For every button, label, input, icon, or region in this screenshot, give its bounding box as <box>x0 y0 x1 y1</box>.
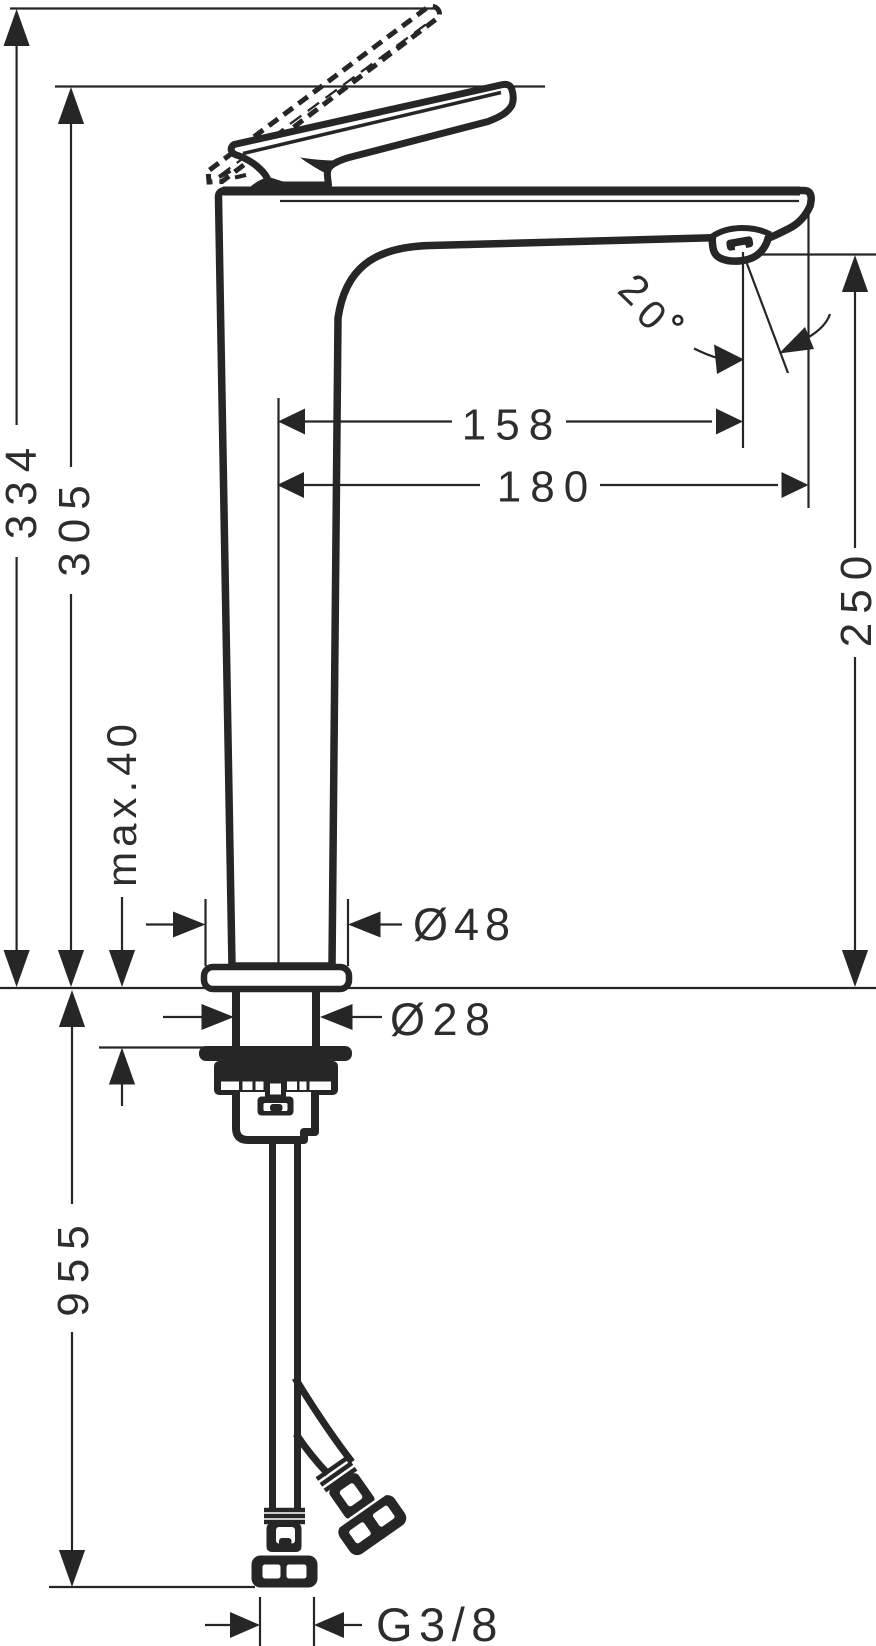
body top inner line <box>280 200 799 202</box>
retaining clip <box>258 1081 294 1116</box>
hose connector left <box>252 1510 318 1588</box>
svg-text:955: 955 <box>49 1216 98 1316</box>
lower shank body <box>236 1092 315 1140</box>
dimension 250 <box>832 255 876 987</box>
svg-text:180: 180 <box>497 463 597 512</box>
angle arc arrow right <box>779 314 830 354</box>
svg-text:250: 250 <box>832 547 876 647</box>
supply hose left <box>273 1144 298 1508</box>
shank tube <box>236 990 316 1048</box>
svg-text:305: 305 <box>50 476 99 576</box>
dimension 180 <box>277 463 809 512</box>
svg-text:Ø28: Ø28 <box>390 994 498 1045</box>
extension line spout tip vertical <box>807 212 809 508</box>
angle 20 degree label <box>610 264 682 339</box>
dimension G3/8 <box>205 1597 504 1646</box>
base plate <box>204 967 349 989</box>
lever handle <box>231 84 513 188</box>
supply hose right diagonal <box>295 1378 352 1474</box>
angle arc arrow left <box>694 345 744 375</box>
dimension diameter 28 <box>163 994 498 1045</box>
dimension 158 <box>278 401 743 450</box>
angle 20 degree leader line <box>743 253 788 373</box>
mounting nut <box>214 1061 338 1095</box>
svg-text:158: 158 <box>462 401 562 450</box>
dimension diameter 48 <box>146 899 516 966</box>
hose connector right <box>305 1449 410 1559</box>
reference line hose end <box>49 1586 255 1588</box>
svg-text:334: 334 <box>0 439 46 539</box>
extension line top 305 <box>55 85 545 87</box>
svg-text:G3/8: G3/8 <box>376 1598 504 1646</box>
svg-text:max.40: max.40 <box>98 719 145 887</box>
centerline extension <box>277 398 279 964</box>
mounting surface line <box>0 987 876 989</box>
dimension 334 <box>0 9 46 987</box>
extension line 250 horizontal <box>748 253 876 255</box>
extension line top 334 <box>10 7 437 9</box>
dimension 955 <box>49 990 98 1587</box>
dimension max.40 <box>98 719 145 1106</box>
faucet body outline <box>218 191 811 967</box>
counter bottom line <box>99 1046 205 1048</box>
svg-text:Ø48: Ø48 <box>413 899 516 950</box>
dimension 305 <box>50 87 99 987</box>
dashed lever raised position <box>208 6 440 182</box>
flange washer <box>199 1046 352 1061</box>
extension line aerator vertical <box>742 252 744 448</box>
aerator face <box>726 236 754 252</box>
